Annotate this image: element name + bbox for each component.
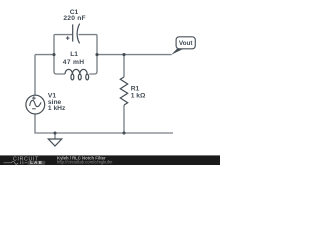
voltage source V1 minus sign: [32, 108, 36, 110]
node junction tank left: [52, 53, 55, 56]
node junction R1 bottom: [122, 131, 125, 134]
svg-text:47 mH: 47 mH: [63, 59, 85, 66]
svg-text:http://circuitlab.com/c/mgkufm: http://circuitlab.com/c/mgkufm: [57, 159, 113, 164]
node flag Vout box: [176, 37, 195, 49]
capacitor C1 plate curved: [77, 24, 80, 44]
wire tank right rail: [89, 35, 97, 74]
svg-text:1 kΩ: 1 kΩ: [131, 93, 146, 100]
inductor L1 coil loop 1: [71, 74, 74, 80]
svg-text:Vout: Vout: [179, 40, 194, 47]
capacitor C1 plate positive: [72, 24, 74, 41]
svg-text:R1: R1: [131, 86, 140, 93]
voltage source V1 plus sign: [32, 96, 36, 100]
wire R1 top: [123, 55, 125, 77]
wire main right feed: [97, 54, 172, 56]
node junction ground: [53, 131, 56, 134]
svg-text:220 nF: 220 nF: [63, 15, 85, 22]
svg-text:1 kHz: 1 kHz: [48, 105, 66, 112]
wire cap branch right: [79, 34, 98, 36]
resistor R1: [120, 77, 127, 105]
inductor L1 coil loop 3: [86, 74, 89, 80]
ground symbol triangle: [48, 139, 61, 146]
inductor L1 coil loop 2: [78, 74, 81, 80]
voltage source V1 body: [26, 95, 45, 114]
node junction tank right: [95, 53, 98, 56]
node flag Vout pointer: [171, 49, 183, 55]
wire left feed: [35, 54, 54, 56]
wire R1 bottom: [123, 105, 125, 133]
voltage source V1 sine symbol: [30, 100, 41, 106]
svg-text:L1: L1: [70, 51, 78, 58]
svg-text:LAB: LAB: [30, 160, 43, 165]
capacitor C1 plus sign: [66, 36, 70, 40]
wire cap branch left: [54, 34, 72, 36]
wire bottom: [35, 114, 173, 133]
inductor L1 coil arches: [65, 69, 87, 74]
wire tank left rail: [54, 35, 65, 74]
watermark bar: [0, 155, 220, 165]
wire ground stem: [54, 133, 56, 139]
wire V1 top: [34, 55, 36, 96]
node junction R1 top: [122, 53, 125, 56]
